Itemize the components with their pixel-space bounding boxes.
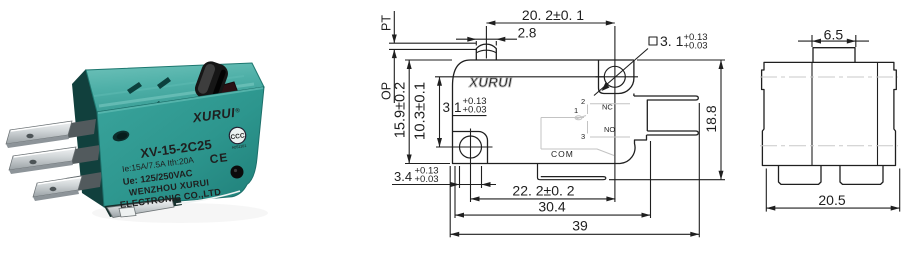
svg-text:6.5: 6.5 [824,27,844,43]
svg-text:2.8: 2.8 [518,26,537,41]
upper-left mounting hole [111,129,130,143]
internal labels [551,97,615,159]
vent slot [183,98,198,110]
switch left side face [72,69,105,208]
dimension 30.4 [455,214,651,216]
end view plunger [813,48,855,63]
svg-text:10.3±0.1: 10.3±0.1 [412,82,429,140]
switch front face [97,87,264,207]
photo soft shadow [92,203,268,223]
lower-right mounting hole [231,166,244,179]
mounting boss bottom-left [453,132,488,164]
switch top face [86,63,264,112]
PT dimension [393,11,395,43]
plunger inner arc [476,50,496,53]
svg-text:3: 3 [581,132,585,141]
terminal pin NO [634,96,698,131]
end view left foot [779,166,822,185]
square hole 3.1 top-right [604,66,625,87]
terminal pin COM bottom [538,164,606,180]
svg-text:20. 2±0. 1: 20. 2±0. 1 [522,7,584,23]
end view body outline [762,62,897,165]
svg-text:OP: OP [380,82,394,100]
end view parting lines [760,76,898,78]
dimension 20.5 [765,169,767,212]
dimension 10.3±0.1 [439,77,441,147]
svg-text:NO: NO [604,125,615,134]
dimension 15.9±0.2 [408,60,410,164]
svg-text:1: 1 [454,100,462,115]
svg-text:39: 39 [572,218,588,234]
svg-text:NC: NC [602,103,613,112]
hole crosshair horizontal [436,146,493,148]
button [192,59,230,104]
svg-text:PT: PT [380,15,394,31]
svg-text:3.4: 3.4 [394,169,412,184]
svg-text:3. 1: 3. 1 [660,33,684,49]
hole 3.4 bottom-left [460,136,482,158]
dimension 39 [450,233,699,235]
front panel printed text [109,104,251,210]
vent slot [157,77,171,89]
dimension 22.2±0.2 [471,198,616,200]
square hole callout 3.1 [649,37,657,45]
bottom dark strip [104,197,182,217]
svg-text:CE: CE [209,150,229,166]
svg-text:22. 2±0. 2: 22. 2±0. 2 [512,183,574,199]
svg-text:+0.03: +0.03 [415,174,439,185]
terminal blade 3 root [64,172,102,193]
svg-text:20.5: 20.5 [818,192,845,208]
base plate edge line to right [176,191,240,204]
CCC certification logo [228,126,247,150]
free position line [389,42,476,44]
operating position line [389,48,476,50]
svg-text:COM: COM [551,149,574,159]
vent slot [148,101,162,113]
svg-text:+0.03: +0.03 [684,41,708,52]
plunger [476,44,496,60]
terminal blade 3 [33,176,82,197]
svg-text:1: 1 [574,106,578,115]
hole crosshair horizontal [596,76,639,78]
metal base lug [119,207,136,217]
vent slot [127,82,142,94]
internal mechanism sketch [541,104,630,156]
OP dimension [393,49,395,103]
svg-text:15.9±0.2: 15.9±0.2 [393,82,409,138]
switch body outline [453,60,647,164]
terminal blade 2 root [60,145,100,166]
dimension 20.2±0.1 [486,22,614,24]
top face highlight streaks [99,84,254,106]
terminal pin NC [647,131,699,135]
svg-text:3: 3 [443,100,451,115]
end view right foot [840,166,883,185]
svg-text:30.4: 30.4 [538,199,565,215]
metal base plate [107,200,174,218]
hole center / extension line vertical [470,129,472,203]
mounting boss top-right [599,60,634,96]
leader line to square hole [594,49,648,96]
terminal blade 1 root [56,119,96,140]
front face top edge highlight [98,88,263,113]
plunger center line [485,26,487,59]
terminal blade 1 [6,121,72,144]
end view internal vertical edges [811,62,813,165]
svg-text:+0.03: +0.03 [463,105,487,116]
hole center / extension line vertical [614,26,616,202]
svg-text:2: 2 [581,97,585,106]
svg-text:18.8: 18.8 [703,105,719,132]
dimension 2.8 [456,38,517,40]
button recess [198,82,240,108]
dimension 18.8 [720,60,722,180]
terminal blade 2 [9,147,76,170]
